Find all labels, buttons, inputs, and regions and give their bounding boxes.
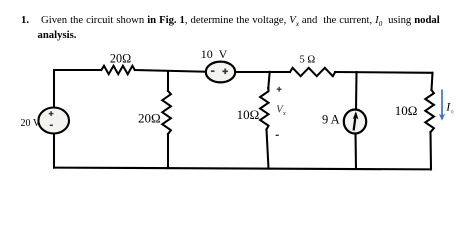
resistor R 20ohm horizontal [101,66,134,74]
wire top middle (R to 10V source) [135,70,206,72]
wire branch node1 below 20ohm vertical [167,134,169,168]
svg-text:20Ω: 20Ω [138,111,161,126]
wire left vertical below 20V source [53,133,55,167]
wire branch 9A above source [355,72,358,110]
svg-text:20 V: 20 V [21,118,41,129]
resistor R 20ohm vertical [162,91,171,134]
svg-text:I0: I0 [445,100,454,116]
wire branch node1 above 20ohm vertical [167,71,169,91]
svg-text:10Ω: 10Ω [395,103,418,118]
wire 10V source to 5ohm [235,71,290,73]
svg-text:10Ω: 10Ω [237,107,260,122]
current source 9A arrow [353,111,359,130]
minus sign in 10V source [211,70,215,72]
svg-text:10 V: 10 V [201,47,228,61]
wire branch 9A below source [354,133,357,169]
svg-text:5 Ω: 5 Ω [300,55,316,66]
current source 9A [344,110,366,134]
wire bottom horizontal [54,168,431,170]
resistor R 10ohm right vertical [425,90,434,132]
minus sign Vx [276,134,279,136]
plus sign in 10V source [222,69,228,75]
current I0 arrow (blue) [439,90,445,121]
resistor R 10ohm Vx vertical [260,88,268,130]
wire 5ohm to top-right corner [335,71,433,74]
wire right vertical above 10ohm [432,73,433,90]
voltage source 20V [38,108,69,134]
plus sign Vx [277,87,282,92]
minus sign in 20V source [50,124,53,126]
problem statement line 1 [21,14,29,26]
wire right vertical below 10ohm [429,132,432,169]
wire branch Vx below 10ohm [267,130,269,169]
problem statement line 2 [38,29,77,41]
svg-text:9 A: 9 A [322,113,340,127]
voltage source 10V [206,62,235,83]
svg-text:20Ω: 20Ω [110,52,131,66]
wire left vertical above 20V source [53,70,55,108]
svg-text:Vx: Vx [276,105,286,117]
wire top-left horizontal [54,69,101,71]
wire branch Vx above 10ohm [268,72,269,88]
plus sign in 20V source [49,111,54,116]
resistor R 5ohm horizontal [290,68,335,76]
